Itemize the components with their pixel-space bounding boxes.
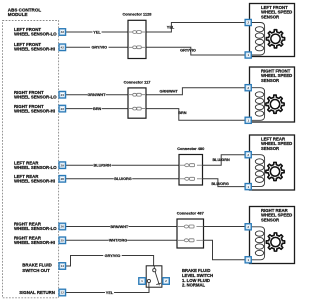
wire label BRN/WHT (RR-LO) (110, 224, 129, 229)
wire label BLU/GRN after C480 (212, 158, 230, 162)
svg-text:YEL: YEL (93, 30, 101, 34)
svg-text:BLU/GRN: BLU/GRN (94, 164, 112, 168)
connector C1128 (123, 12, 153, 59)
module pin 25 (RR-HI) (59, 237, 66, 244)
wire label BLU/GRN (LR-LO) (93, 163, 111, 168)
wire brake fluid switch out GRY/VIO (66, 256, 154, 267)
wire label BLU/ORG (LR-HI) (114, 177, 132, 182)
wire RR-HI module to C487 (66, 239, 177, 241)
svg-text:Connector 487: Connector 487 (177, 210, 204, 215)
wire label GRY/VIO (LF-HI) (90, 45, 108, 50)
ABS control module U1 (dashed outline) (3, 21, 59, 298)
svg-text:25: 25 (61, 238, 65, 242)
switch pin 2 (163, 278, 170, 285)
svg-text:28: 28 (61, 177, 65, 181)
svg-text:2: 2 (165, 279, 167, 283)
wire C480 to LR sensor pin2 (203, 155, 246, 166)
svg-text:24: 24 (61, 93, 65, 97)
module pin 29 (LR-LO) (59, 162, 66, 169)
svg-text:BRN: BRN (93, 107, 101, 111)
RR sensor pin 2 (245, 224, 251, 230)
module pin 23 (RF-HI) (59, 105, 66, 112)
module pin 12 (signal return) (59, 289, 66, 296)
svg-text:2: 2 (247, 86, 249, 90)
wire LR-HI module to C480 (66, 178, 179, 180)
RR sensor pin 1 (245, 257, 251, 263)
module pin 24 (RF-LO) (59, 91, 66, 98)
wire RR-LO module to C487 (66, 226, 177, 228)
svg-text:2: 2 (247, 225, 249, 229)
svg-text:GRY/VIO: GRY/VIO (91, 46, 107, 50)
svg-text:1: 1 (247, 185, 249, 189)
wire label BLU/ORG after C480 (211, 182, 229, 186)
svg-text:2: 2 (247, 21, 249, 25)
wire C487 to RR sensor pin2 (204, 226, 246, 228)
wire label BRN (RF-HI) (93, 106, 102, 111)
wire label WHT/ORG (RR-HI) (109, 238, 127, 243)
svg-text:1: 1 (141, 279, 143, 283)
svg-text:12: 12 (61, 291, 65, 295)
svg-text:43: 43 (61, 30, 65, 34)
RF sensor pin 1 (245, 117, 251, 123)
module pin 26 (RR-LO) (59, 223, 66, 230)
RF sensor pin 2 (245, 85, 251, 91)
module pin 28 (LR-HI) (59, 176, 66, 183)
svg-text:BLU/ORG: BLU/ORG (114, 177, 132, 181)
svg-text:GRY/VIO: GRY/VIO (180, 49, 196, 53)
wire C117 to RF sensor pin1 (146, 109, 245, 121)
svg-text:26: 26 (61, 225, 65, 229)
wire RF-LO module to C117 (66, 94, 128, 96)
wire C1128 to LF sensor pin1 (146, 47, 245, 55)
svg-text:1: 1 (247, 118, 249, 122)
wire label GRN/WHT (RF-LO) (87, 93, 106, 98)
wire label GRN/WHT after C117 (160, 90, 179, 94)
svg-text:SIGNAL RETURN: SIGNAL RETURN (19, 290, 55, 295)
wire label GRY/VIO (brake fluid) (103, 253, 121, 258)
right front wheel speed sensor (250, 67, 295, 122)
svg-text:BLU/GRN: BLU/GRN (212, 158, 230, 162)
svg-text:BLU/ORG: BLU/ORG (211, 182, 229, 186)
svg-text:2: 2 (247, 153, 249, 157)
brake fluid level switch S1 (146, 266, 162, 287)
wire label YEL (signal return) (105, 290, 114, 295)
switch pin 1 (139, 278, 146, 285)
module pin 42 (LF-HI) (59, 44, 66, 51)
svg-text:BRAKE FLUIDSWITCH OUT: BRAKE FLUIDSWITCH OUT (22, 262, 51, 272)
svg-text:Connector 117: Connector 117 (124, 79, 151, 84)
svg-text:1: 1 (247, 53, 249, 57)
svg-text:1: 1 (247, 258, 249, 262)
wire RF-HI module to C117 (66, 108, 128, 110)
LF sensor pin 1 (245, 52, 251, 58)
wire C480 to LR sensor pin1 (203, 179, 246, 187)
wire label GRY/VIO after C1128 (180, 49, 196, 53)
svg-text:Connector 480: Connector 480 (177, 146, 204, 151)
wire label YEL (LF-LO) (92, 30, 101, 35)
svg-text:YEL: YEL (167, 26, 175, 30)
svg-text:GRN/WHT: GRN/WHT (87, 93, 106, 97)
svg-text:BRN/WHT: BRN/WHT (110, 225, 129, 229)
svg-text:GRY/VIO: GRY/VIO (105, 254, 121, 258)
right rear wheel speed sensor (250, 207, 295, 264)
module pin 14 (brake fluid switch out) (59, 263, 66, 270)
wire label BRN after C117 (178, 111, 186, 115)
LR sensor pin 2 (245, 152, 251, 158)
wire label YEL after C1128 (167, 26, 175, 30)
svg-text:BRN: BRN (178, 111, 186, 115)
wire LF-HI module to C1128 (66, 46, 128, 48)
wire LF-LO module to C1128 (66, 31, 128, 33)
LF sensor pin 2 (245, 19, 251, 25)
connector C487 (177, 210, 204, 248)
svg-text:23: 23 (61, 107, 65, 111)
left rear wheel speed sensor (250, 135, 295, 190)
wire LR-LO module to C480 (66, 164, 179, 166)
svg-text:YEL: YEL (106, 291, 114, 295)
svg-text:14: 14 (61, 264, 65, 268)
svg-text:Connector 1128: Connector 1128 (123, 12, 153, 17)
left front wheel speed sensor (250, 4, 295, 57)
LR sensor pin 1 (245, 184, 251, 190)
module pin 43 (LF-LO) (59, 29, 66, 36)
svg-text:29: 29 (61, 163, 65, 167)
svg-text:42: 42 (61, 45, 65, 49)
svg-text:WHT/ORG: WHT/ORG (109, 239, 127, 243)
wire signal return YEL (66, 287, 149, 292)
connector C117 (124, 79, 151, 118)
wire C117 to RF sensor pin2 (146, 88, 245, 95)
wire C487 to RR sensor pin1 (204, 240, 246, 259)
wire C1128 to LF sensor pin2 (146, 23, 245, 33)
svg-text:GRN/WHT: GRN/WHT (160, 90, 179, 94)
connector C480 (177, 146, 204, 185)
